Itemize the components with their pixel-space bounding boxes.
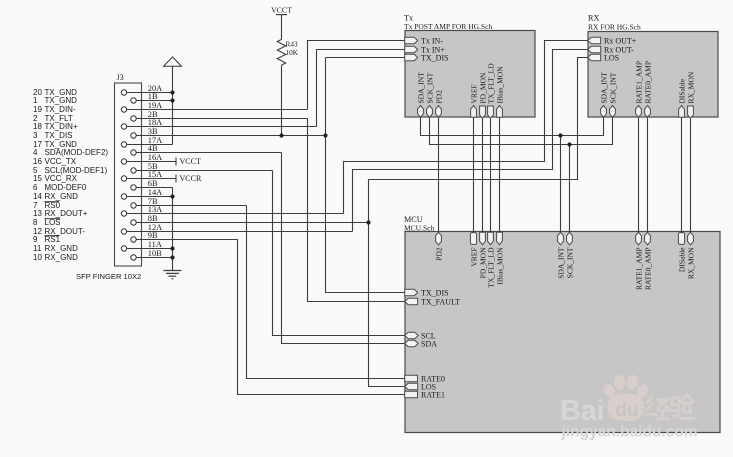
svg-text:MCU.Sch: MCU.Sch bbox=[404, 224, 434, 233]
wire J3 20A stub bbox=[127, 92, 173, 94]
svg-text:DISable: DISable bbox=[677, 247, 686, 272]
svg-text:18: 18 bbox=[33, 122, 42, 131]
wire net RX_DOUT+ (13A to Rx OUT+) bbox=[344, 41, 589, 214]
wire net VREF (Tx to MCU) bbox=[473, 117, 475, 233]
svg-text:11A: 11A bbox=[148, 240, 162, 249]
node J3 pin 14A (14 RX_GND) bbox=[33, 188, 173, 201]
wire J3 1B stub bbox=[136, 100, 172, 102]
svg-text:13: 13 bbox=[33, 209, 42, 218]
pin Tx SDA_INT bbox=[416, 72, 425, 117]
svg-text:RX FOR HG.Sch: RX FOR HG.Sch bbox=[588, 23, 641, 32]
pin MCU SDA_INT bbox=[556, 232, 565, 278]
wire J3 7B stub bbox=[136, 205, 246, 207]
svg-text:PD2: PD2 bbox=[434, 247, 443, 261]
node J3 pin 20A (20 TX_GND) bbox=[33, 84, 173, 97]
wire J3 9B stub bbox=[136, 239, 237, 241]
node J3 pin 8B (8 LOS) bbox=[33, 214, 369, 227]
node J3 pin 15A (15 VCC_RX) bbox=[33, 170, 176, 183]
svg-text:VCCT: VCCT bbox=[180, 157, 201, 166]
wire J3 5B stub bbox=[136, 170, 272, 172]
junction SDA_INT bbox=[558, 133, 562, 137]
svg-text:jingyan.baidu.com: jingyan.baidu.com bbox=[561, 424, 698, 441]
wire J3 4B stub bbox=[136, 152, 281, 154]
wire net RX_DOUT- (12A to Rx OUT-) bbox=[353, 50, 589, 232]
node J3 pin 4B (4 SDA(MOD-DEF2)) bbox=[33, 144, 282, 157]
node J3 pin 3B (3 TX_DIS) bbox=[33, 127, 326, 140]
svg-text:TX_DIN+: TX_DIN+ bbox=[45, 122, 78, 131]
junction 10B/GND bbox=[170, 255, 174, 259]
wire net RATE0_AMP (RX to MCU) bbox=[647, 117, 649, 233]
node J3 pin 2B (2 TX_FLT) bbox=[33, 110, 308, 123]
ground symbol bbox=[163, 271, 181, 279]
power symbol: chassis triangle at top of GND bus bbox=[164, 57, 182, 66]
svg-text:10: 10 bbox=[33, 253, 42, 262]
wire J3 3B stub bbox=[136, 135, 325, 137]
pin MCU TX_FAULT bbox=[405, 297, 461, 306]
node J3 pin 5B (5 SCL(MOD-DEF1)) bbox=[33, 162, 273, 175]
pin MCU RATE1 bbox=[405, 390, 445, 399]
svg-text:1B: 1B bbox=[148, 92, 158, 101]
svg-text:14: 14 bbox=[33, 192, 42, 201]
pin MCU SDA bbox=[405, 339, 438, 348]
svg-text:19A: 19A bbox=[148, 101, 162, 110]
wire VCCT to R43 bbox=[281, 15, 283, 40]
node J3 pin 19A (19 TX_DIN-) bbox=[33, 101, 308, 114]
svg-text:6: 6 bbox=[33, 183, 38, 192]
svg-text:RX_MON: RX_MON bbox=[686, 247, 695, 279]
svg-text:IBias_MON: IBias_MON bbox=[495, 247, 504, 285]
wire R43 to TX_DIS net bbox=[279, 65, 283, 137]
wire net TX_DIS (3B to Tx TX_DIS and MCU TX_DIS) bbox=[323, 58, 405, 293]
svg-text:RATE0_AMP: RATE0_AMP bbox=[643, 61, 652, 104]
pin MCU RATE0 bbox=[405, 374, 445, 383]
svg-text:16A: 16A bbox=[148, 153, 162, 162]
wire J3 18A stub bbox=[127, 126, 317, 128]
pin MCU LOS bbox=[405, 382, 436, 391]
junction R43/TX_DIS bbox=[279, 133, 283, 137]
node J3 pin 6B (6 MOD-DEF0) bbox=[33, 179, 173, 192]
svg-text:VREF: VREF bbox=[469, 84, 478, 103]
wire net PD_MON (Tx to MCU) bbox=[482, 117, 484, 233]
pin MCU DISable bbox=[677, 233, 686, 272]
pin Tx TX_DIS bbox=[405, 53, 449, 62]
pin MCU SCL bbox=[405, 331, 436, 340]
node J3 pin 7B (7 RS0) bbox=[33, 197, 247, 210]
power symbol VCCT bbox=[271, 6, 292, 15]
node J3 pin 9B (9 RS1) bbox=[33, 231, 238, 244]
pin MCU TX_DIS bbox=[405, 288, 449, 297]
svg-text:15: 15 bbox=[33, 174, 42, 183]
svg-text:10K: 10K bbox=[286, 48, 299, 57]
svg-text:VCC_TX: VCC_TX bbox=[45, 157, 77, 166]
svg-text:9B: 9B bbox=[148, 231, 158, 240]
svg-text:RX: RX bbox=[588, 14, 599, 23]
svg-text:8B: 8B bbox=[148, 214, 158, 223]
svg-text:SDA_INT: SDA_INT bbox=[556, 247, 565, 279]
svg-text:RX_GND: RX_GND bbox=[45, 244, 79, 253]
wire J3 14A stub bbox=[127, 196, 173, 198]
svg-text:Rx OUT+: Rx OUT+ bbox=[604, 36, 637, 45]
svg-text:4B: 4B bbox=[148, 144, 158, 153]
svg-text:IBias_MON: IBias_MON bbox=[495, 66, 504, 104]
connector J3 body (SFP FINGER 10X2) bbox=[76, 73, 142, 281]
svg-text:11: 11 bbox=[33, 244, 42, 253]
svg-text:16: 16 bbox=[33, 157, 42, 166]
svg-text:VREF: VREF bbox=[469, 248, 478, 267]
pin RX DISable bbox=[677, 78, 686, 117]
pin Tx Tx IN+ bbox=[405, 45, 446, 54]
wire net RATE1_AMP (RX to MCU) bbox=[638, 117, 640, 233]
junction 1B/GND bbox=[170, 98, 174, 102]
wire net RX_MON (RX to MCU) bbox=[690, 117, 692, 233]
pin RX LOS bbox=[588, 53, 619, 62]
svg-text:LOS: LOS bbox=[604, 53, 619, 62]
wire net SDA_INT (Tx, RX, MCU) bbox=[421, 117, 604, 233]
node VCCT tap on pin 16A bbox=[176, 157, 201, 166]
svg-text:14A: 14A bbox=[148, 188, 162, 197]
wire J3 2B stub bbox=[136, 118, 307, 120]
node VCCR tap on pin 15A bbox=[176, 174, 202, 183]
wire J3 6B stub bbox=[136, 187, 172, 189]
pin MCU PD2 bbox=[434, 232, 443, 261]
pin MCU PD_MON bbox=[478, 232, 487, 278]
resistor R43 10K bbox=[277, 39, 298, 65]
wire net DISable (RX to MCU) bbox=[681, 117, 683, 233]
pin MCU IBias_MON bbox=[495, 232, 504, 284]
junction SCK_INT bbox=[567, 142, 571, 146]
pin RX RATE0_AMP bbox=[643, 61, 652, 117]
wire J3 13A stub bbox=[127, 213, 344, 215]
pin Tx TX_FLT_LD bbox=[486, 63, 495, 119]
svg-text:TX_DIS: TX_DIS bbox=[45, 131, 73, 140]
pin RX RATE1_AMP bbox=[634, 61, 643, 117]
svg-text:8: 8 bbox=[33, 218, 38, 227]
svg-text:3B: 3B bbox=[148, 127, 158, 136]
junction 20A/GND bbox=[170, 90, 174, 94]
op-amp block U_TX (Tx POST AMP) bbox=[404, 14, 535, 118]
receiver block U_RX (RX FOR HG) bbox=[588, 14, 718, 118]
svg-text:3: 3 bbox=[33, 131, 38, 140]
svg-text:1: 1 bbox=[33, 96, 38, 105]
svg-text:SDA_INT: SDA_INT bbox=[416, 72, 425, 104]
svg-text:TX_FAULT: TX_FAULT bbox=[421, 297, 460, 306]
wire net IBias_MON (Tx to MCU) bbox=[499, 117, 501, 233]
svg-text:TX_DIN-: TX_DIN- bbox=[45, 105, 76, 114]
junction 11A/GND bbox=[170, 246, 174, 250]
wire J3 17A stub bbox=[127, 144, 173, 146]
pin MCU VREF bbox=[469, 233, 478, 267]
svg-text:PD2: PD2 bbox=[434, 90, 443, 104]
svg-text:4: 4 bbox=[33, 148, 38, 157]
node J3 pin 11A (11 RX_GND) bbox=[33, 240, 173, 253]
node J3 pin 1B (1 TX_GND) bbox=[33, 92, 173, 105]
svg-text:RX_GND: RX_GND bbox=[45, 253, 79, 262]
wire net TX_FLT_LD (Tx to MCU) bbox=[490, 117, 492, 233]
svg-text:9: 9 bbox=[33, 235, 38, 244]
svg-text:RATE1_AMP: RATE1_AMP bbox=[634, 61, 643, 104]
pin MCU RATE1_AMP bbox=[634, 232, 643, 290]
wire net RS0/RATE0 (7B to MCU RATE0) bbox=[247, 206, 406, 379]
wire GND upper bus (triangle to 17A) bbox=[170, 66, 174, 144]
MCU block (MCU.Sch) bbox=[404, 215, 720, 433]
node J3 pin 10B (10 RX_GND) bbox=[33, 249, 173, 262]
junction 14A/GND bbox=[170, 194, 174, 198]
svg-text:VCCR: VCCR bbox=[180, 174, 202, 183]
wire net PD2 (Tx to MCU) bbox=[438, 117, 440, 233]
wire net SCL (5B to MCU SCL) bbox=[273, 171, 406, 336]
svg-text:15A: 15A bbox=[148, 170, 162, 179]
wire GND lower bus (6B to ground) bbox=[170, 188, 174, 271]
wire J3 19A stub bbox=[127, 109, 308, 111]
junction TX_DIS bbox=[323, 133, 327, 137]
svg-text:19: 19 bbox=[33, 105, 42, 114]
pin MCU RX_MON bbox=[686, 232, 695, 279]
svg-text:LOS: LOS bbox=[45, 218, 61, 227]
wire net TX_DIN- (19A to Tx IN-) bbox=[308, 41, 406, 110]
svg-text:RATE0_AMP: RATE0_AMP bbox=[643, 248, 652, 291]
svg-text:6B: 6B bbox=[148, 179, 158, 188]
svg-text:13A: 13A bbox=[148, 205, 162, 214]
wire J3 16A stub bbox=[127, 161, 176, 163]
pin RX Rx OUT- bbox=[588, 45, 634, 54]
wire net RS1/RATE1 (9B to MCU RATE1) bbox=[238, 240, 406, 395]
svg-text:VCC_RX: VCC_RX bbox=[45, 174, 78, 183]
svg-text:SCK_INT: SCK_INT bbox=[565, 247, 574, 278]
svg-text:TX_DIS: TX_DIS bbox=[421, 53, 449, 62]
node J3 pin 13A (13 RX_DOUT+) bbox=[33, 205, 344, 218]
svg-text:Bai: Bai bbox=[560, 395, 604, 427]
wire net SCK_INT (Tx, RX, MCU) bbox=[430, 117, 613, 233]
pin MCU RATE0_AMP bbox=[643, 232, 652, 290]
svg-text:Tx POST AMP FOR HG.Sch: Tx POST AMP FOR HG.Sch bbox=[404, 22, 492, 31]
wire J3 12A stub bbox=[127, 231, 353, 233]
junction LOS bbox=[366, 220, 370, 224]
svg-text:SDA_INT: SDA_INT bbox=[599, 72, 608, 104]
svg-text:TX_FLT_LD: TX_FLT_LD bbox=[486, 247, 495, 288]
pin MCU TX_FLT_LD bbox=[486, 232, 495, 287]
svg-text:TX_GND: TX_GND bbox=[45, 96, 78, 105]
wire J3 15A stub bbox=[127, 178, 176, 180]
svg-text:SDA: SDA bbox=[421, 339, 437, 348]
wire J3 10B stub bbox=[136, 257, 172, 259]
svg-text:RS1: RS1 bbox=[45, 235, 61, 244]
svg-text:RATE1_AMP: RATE1_AMP bbox=[634, 248, 643, 291]
node J3 pin 18A (18 TX_DIN+) bbox=[33, 118, 317, 131]
pin Tx Tx IN- bbox=[405, 36, 444, 45]
svg-text:RX_GND: RX_GND bbox=[45, 192, 79, 201]
svg-text:du: du bbox=[616, 400, 639, 421]
node J3 pin 12A (12 RX_DOUT-) bbox=[33, 223, 353, 236]
pin MCU SCK_INT bbox=[565, 232, 574, 278]
svg-text:RATE1: RATE1 bbox=[421, 390, 445, 399]
svg-text:RX_MON: RX_MON bbox=[686, 71, 695, 103]
svg-text:Tx IN-: Tx IN- bbox=[421, 36, 443, 45]
pin Tx PD2 bbox=[434, 90, 443, 117]
svg-text:DISable: DISable bbox=[677, 78, 686, 103]
svg-text:18A: 18A bbox=[148, 118, 162, 127]
svg-text:TX_FLT_LD: TX_FLT_LD bbox=[486, 63, 495, 104]
wire net LOS (8B to RX LOS and MCU LOS) bbox=[366, 58, 588, 387]
svg-text:RX_DOUT+: RX_DOUT+ bbox=[45, 209, 88, 218]
svg-text:J3: J3 bbox=[117, 73, 124, 82]
node J3 pin 17A (17 TX_GND) bbox=[33, 136, 173, 149]
pin RX SCK_INT bbox=[608, 72, 617, 117]
pin Tx VREF bbox=[469, 84, 478, 117]
pin RX RX_MON bbox=[686, 71, 695, 118]
svg-text:SCK_INT: SCK_INT bbox=[425, 72, 434, 103]
pin Tx PD_MON bbox=[478, 72, 487, 118]
node J3 pin 16A (16 VCC_TX) bbox=[33, 153, 176, 166]
pin Tx SCK_INT bbox=[425, 72, 434, 117]
svg-text:VCCT: VCCT bbox=[271, 6, 292, 15]
wire J3 11A stub bbox=[127, 248, 173, 250]
pin RX SDA_INT bbox=[599, 72, 608, 117]
svg-text:SDA(MOD-DEF2): SDA(MOD-DEF2) bbox=[45, 148, 109, 157]
svg-text:10B: 10B bbox=[148, 249, 162, 258]
wire net TX_FLT (2B to MCU TX_FAULT) bbox=[308, 119, 406, 302]
wire J3 8B stub bbox=[136, 222, 368, 224]
page watermark (decorative, not labelled further) bbox=[560, 374, 698, 440]
wire net TX_DIN+ (18A to Tx IN+) bbox=[317, 50, 406, 127]
wire net SDA (4B to MCU SDA) bbox=[282, 153, 406, 344]
svg-text:SCK_INT: SCK_INT bbox=[608, 72, 617, 103]
svg-text:TX_DIS: TX_DIS bbox=[421, 288, 449, 297]
pin Tx IBias_MON bbox=[495, 66, 504, 117]
pin RX Rx OUT+ bbox=[588, 36, 637, 45]
svg-text:SFP FINGER 10X2: SFP FINGER 10X2 bbox=[76, 272, 141, 281]
svg-text:MOD-DEF0: MOD-DEF0 bbox=[45, 183, 87, 192]
